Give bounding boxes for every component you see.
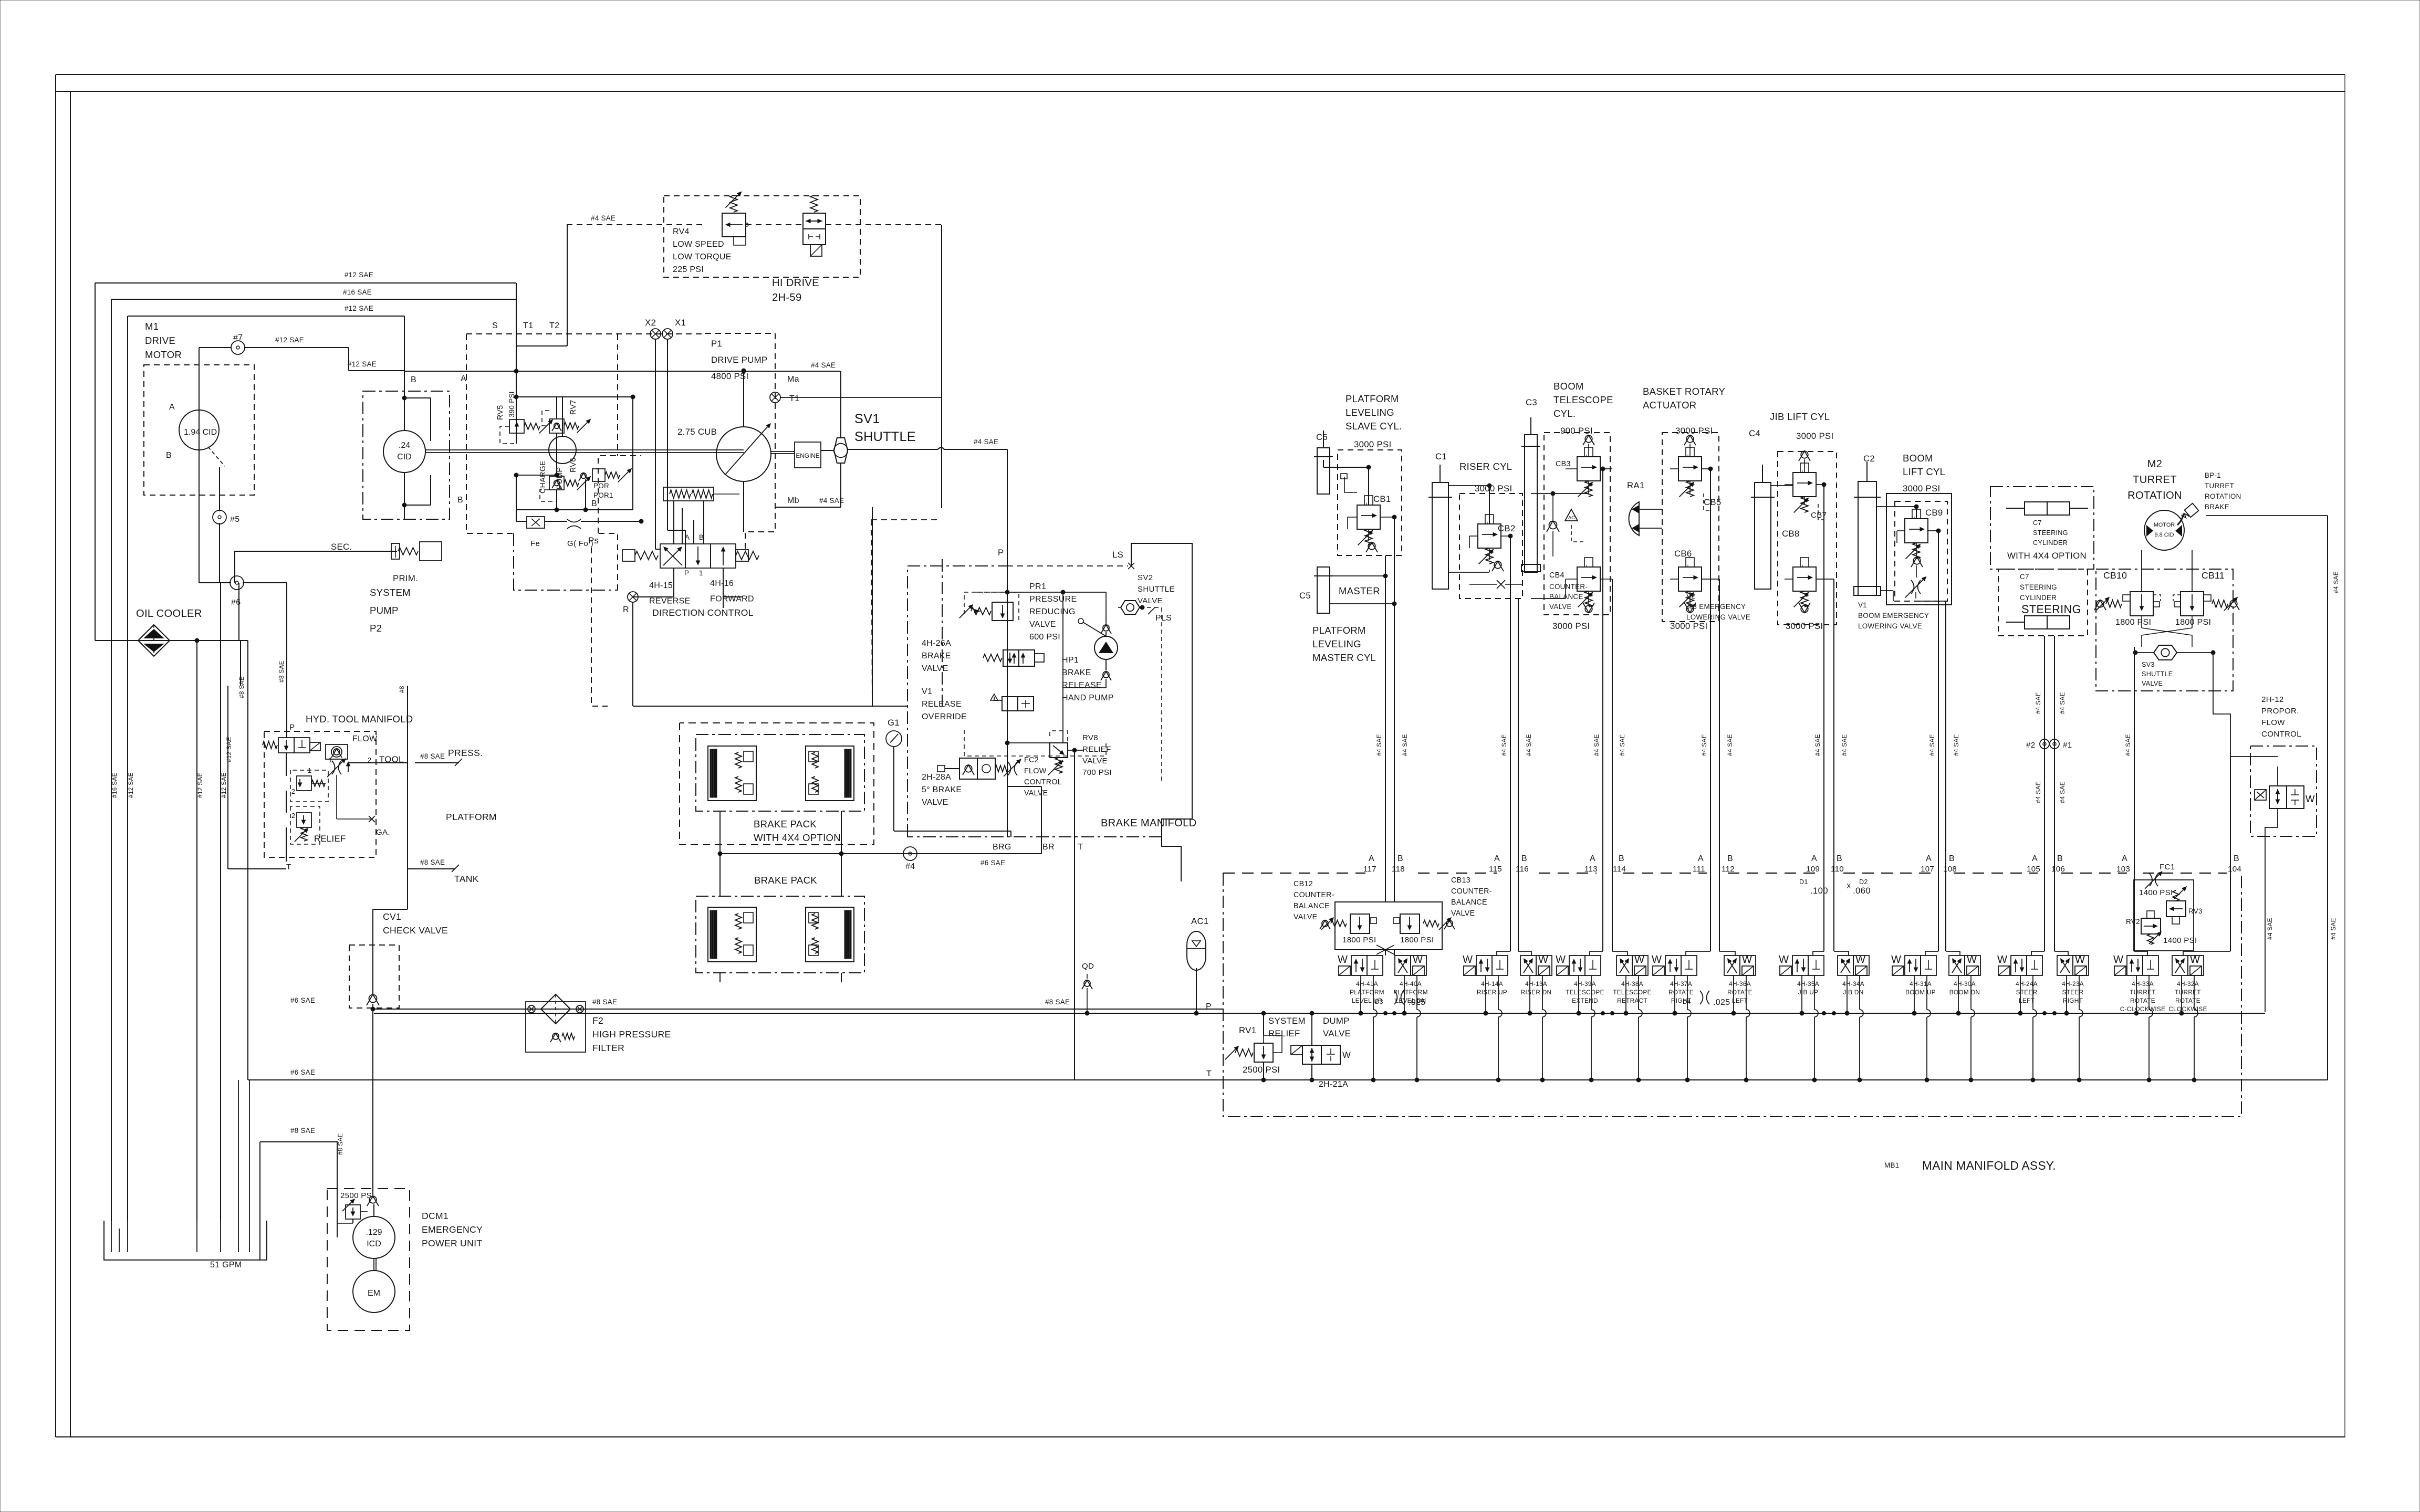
svg-text:ROTATION: ROTATION	[2205, 492, 2241, 500]
svg-text:PLATFORM: PLATFORM	[1312, 625, 1366, 636]
prop flow valve	[2255, 786, 2315, 808]
svg-text:X2: X2	[645, 318, 656, 328]
POR POR1	[579, 468, 632, 499]
svg-text:1800 PSI: 1800 PSI	[2175, 618, 2211, 627]
label B top	[457, 496, 463, 505]
svg-text:RA1: RA1	[1627, 480, 1645, 490]
master cyl label	[1312, 625, 1376, 663]
port A113	[1584, 854, 1598, 874]
svg-text:LEVELING: LEVELING	[1312, 638, 1361, 649]
valve 4H-33A	[2113, 954, 2165, 1013]
svg-text:REVERSE: REVERSE	[649, 596, 691, 605]
ports S T1 T2	[492, 321, 559, 330]
svg-text:TELESCOPE: TELESCOPE	[1566, 989, 1604, 996]
svg-text:VALVE: VALVE	[1451, 909, 1475, 918]
svg-text:ROTATE: ROTATE	[2175, 997, 2200, 1004]
steering cyl bottom	[2006, 616, 2070, 629]
label 3000 PSI cb9	[1903, 484, 1940, 493]
svg-text:B: B	[2234, 854, 2239, 863]
HP1 label	[1062, 656, 1114, 702]
boom lift label	[1863, 453, 1945, 477]
svg-text:#4 SAE: #4 SAE	[819, 497, 844, 505]
svg-text:JIB DN: JIB DN	[1843, 989, 1863, 996]
CB9 outer box	[1886, 493, 1952, 605]
svg-text:225 PSI: 225 PSI	[673, 265, 704, 274]
svg-text:#12 SAE: #12 SAE	[345, 304, 373, 312]
DCM1 check	[367, 1196, 379, 1206]
label A mid	[461, 374, 466, 383]
wire A103 drop	[2134, 616, 2142, 873]
wire bus3 drop	[404, 316, 405, 391]
wire oil cooler line	[95, 583, 248, 764]
svg-text:POR1: POR1	[593, 491, 613, 499]
svg-text:HIGH PRESSURE: HIGH PRESSURE	[592, 1029, 671, 1039]
svg-text:A: A	[1590, 854, 1595, 863]
svg-text:MB1: MB1	[1884, 1161, 1899, 1169]
svg-text:VALVE: VALVE	[1323, 1028, 1351, 1038]
svg-text:FLOW: FLOW	[352, 734, 378, 743]
svg-text:C3: C3	[1526, 397, 1537, 407]
turret motor wires	[2142, 546, 2192, 592]
steering lower box	[1998, 569, 2088, 636]
svg-text:#8 SAE: #8 SAE	[290, 1127, 315, 1135]
svg-text:T1: T1	[789, 394, 799, 403]
svg-text:1: 1	[329, 757, 332, 764]
svg-text:4H-31A: 4H-31A	[1910, 980, 1932, 988]
svg-text:4H-23A: 4H-23A	[2062, 980, 2084, 988]
svg-text:MASTER CYL: MASTER CYL	[1312, 652, 1376, 663]
orifice #7	[231, 333, 245, 354]
svg-text:TELESCOPE: TELESCOPE	[1613, 989, 1652, 996]
svg-text:LOW SPEED: LOW SPEED	[673, 240, 724, 249]
AC triangle	[1565, 509, 1578, 521]
AC1 stem	[1194, 968, 1198, 1015]
svg-text:900 PSI: 900 PSI	[1560, 426, 1593, 436]
valve 4H-40A	[1393, 954, 1428, 1004]
V1 release override	[990, 694, 1034, 711]
PR1 valve	[959, 592, 1019, 621]
svg-text:BRAKE: BRAKE	[1062, 668, 1091, 677]
2H-12 label	[2261, 695, 2301, 739]
turret brake BP1	[2177, 503, 2198, 525]
svg-text:118: 118	[1392, 865, 1405, 874]
wire CB9 ports	[1916, 531, 1946, 873]
CB3 valve	[1556, 447, 1600, 497]
svg-text:1800 PSI: 1800 PSI	[2115, 618, 2151, 627]
2H-28A label	[922, 773, 962, 807]
wire turret right vert	[2192, 516, 2340, 1080]
port Fe	[514, 473, 545, 548]
svg-text:PRIM.: PRIM.	[393, 573, 418, 583]
svg-text:T: T	[1206, 1069, 1212, 1078]
test point R	[623, 592, 638, 614]
svg-text:REDUCING: REDUCING	[1029, 607, 1076, 616]
svg-text:W: W	[1967, 954, 1977, 965]
direction control springs	[622, 550, 759, 561]
svg-text:4H-24A: 4H-24A	[2016, 980, 2038, 988]
wire X1 drop	[667, 339, 668, 530]
tool flow control	[326, 734, 378, 777]
tool solenoid valve	[263, 738, 320, 753]
svg-text:D4: D4	[1683, 998, 1691, 1005]
svg-text:PR1: PR1	[1029, 582, 1046, 591]
svg-text:MASTER: MASTER	[1339, 585, 1380, 596]
svg-text:CLOCKWISE: CLOCKWISE	[2168, 1005, 2207, 1013]
basket dashed box	[1662, 433, 1719, 622]
label 900 PSI	[1560, 426, 1593, 436]
4H-15 4H-16 labels	[649, 579, 754, 605]
svg-text:RISER UP: RISER UP	[1477, 989, 1507, 996]
svg-text:CB1: CB1	[1373, 494, 1391, 504]
svg-text:QD: QD	[1082, 962, 1094, 971]
svg-text:1800 PSI: 1800 PSI	[1400, 936, 1434, 944]
dump wires	[1310, 1011, 1314, 1082]
brake pack 2 dashed box	[696, 896, 864, 973]
labels #4 SAE pair1	[1375, 734, 1409, 756]
svg-text:VALVE: VALVE	[1024, 789, 1048, 797]
svg-text:BALANCE: BALANCE	[1451, 898, 1487, 907]
charge pump	[539, 397, 576, 493]
svg-text:WITH 4X4 OPTION: WITH 4X4 OPTION	[754, 832, 841, 843]
svg-text:RELIEF: RELIEF	[1082, 745, 1111, 754]
svg-text:#4 SAE: #4 SAE	[2332, 571, 2340, 593]
labels #4 SAE pair3	[1593, 734, 1626, 756]
svg-text:T: T	[286, 863, 291, 871]
CB10 CB11 box	[2096, 569, 2233, 691]
svg-text:114: 114	[1613, 865, 1626, 874]
svg-text:#5: #5	[230, 515, 239, 524]
svg-text:BOOM: BOOM	[1553, 381, 1584, 392]
wire stroker links	[674, 501, 704, 544]
svg-text:DUMP: DUMP	[1323, 1016, 1350, 1026]
steering 4x4 box	[1990, 487, 2094, 569]
svg-text:SV3: SV3	[2142, 661, 2155, 668]
CB4 valve	[1549, 558, 1600, 607]
svg-text:TURRET: TURRET	[2133, 474, 2177, 486]
svg-text:PLATFORM: PLATFORM	[446, 812, 497, 822]
svg-text:RV8: RV8	[1082, 733, 1098, 742]
wire motor A line	[199, 336, 404, 371]
wire P vertical brake	[998, 449, 1007, 837]
svg-text:W: W	[1855, 954, 1865, 965]
wire #4 SAE dash right	[872, 507, 942, 706]
HP1 hand pump	[1078, 618, 1118, 680]
CB8 valve	[1782, 529, 1816, 607]
wire charge B line	[516, 499, 633, 512]
svg-text:FILTER: FILTER	[592, 1043, 624, 1053]
direction control labels	[684, 533, 704, 577]
svg-text:W: W	[1891, 954, 1901, 965]
wire sec line	[235, 551, 391, 583]
svg-text:1: 1	[308, 767, 311, 774]
CB9 orifice	[1905, 576, 1927, 598]
oil cooler	[136, 608, 202, 656]
svg-text:RELEASE: RELEASE	[1062, 681, 1102, 690]
port A103	[2116, 854, 2130, 874]
CB11 valve	[2173, 592, 2239, 616]
svg-text:D2: D2	[1859, 878, 1868, 886]
label BRAKE MANIFOLD	[1101, 817, 1197, 829]
svg-text:CYLINDER: CYLINDER	[2033, 539, 2068, 547]
svg-text:LS: LS	[1112, 550, 1123, 560]
svg-text:B: B	[1727, 854, 1733, 863]
tank bracket	[104, 1221, 267, 1260]
svg-text:4H-35A: 4H-35A	[1797, 980, 1819, 988]
valve 4H-32A	[2168, 954, 2207, 1013]
DIRECTION CONTROL label	[652, 607, 754, 618]
svg-text:1400 PSI: 1400 PSI	[2139, 888, 2173, 897]
CB4 check	[1583, 591, 1594, 613]
svg-text:W: W	[1652, 954, 1662, 965]
svg-text:CHARGE: CHARGE	[539, 460, 547, 493]
svg-text:TANK: TANK	[454, 874, 479, 884]
svg-text:C2: C2	[1863, 454, 1875, 464]
svg-text:3000 PSI: 3000 PSI	[1786, 621, 1823, 631]
svg-text:A: A	[1494, 854, 1500, 863]
svg-text:BOOM DN: BOOM DN	[1949, 989, 1980, 996]
labels #4 SAE pair2	[1500, 734, 1532, 756]
wire #6 SAE T line	[248, 1068, 1223, 1080]
svg-text:HAND PUMP: HAND PUMP	[1062, 694, 1114, 702]
svg-text:BOOM UP: BOOM UP	[1905, 989, 1936, 996]
svg-text:ROTATE: ROTATE	[2130, 997, 2155, 1004]
svg-text:#4 SAE: #4 SAE	[2035, 781, 2042, 803]
port A105	[2027, 854, 2040, 874]
wire Mb line	[775, 496, 844, 507]
svg-text:4H-33A: 4H-33A	[2132, 980, 2154, 988]
BP-1 label	[2205, 471, 2241, 511]
svg-text:CONTROL: CONTROL	[1024, 778, 1062, 786]
wire hi drive feed	[567, 225, 942, 508]
svg-text:5° BRAKE: 5° BRAKE	[922, 785, 962, 794]
svg-text:BOOM: BOOM	[1903, 453, 1933, 464]
AC1 accumulator	[1187, 916, 1209, 970]
svg-text:.100: .100	[1810, 886, 1828, 896]
svg-text:111: 111	[1693, 865, 1705, 874]
svg-text:C6: C6	[1316, 432, 1328, 442]
svg-text:#7: #7	[233, 333, 243, 342]
prop flow wires	[2230, 757, 2337, 1012]
svg-text:#12 SAE: #12 SAE	[127, 772, 134, 798]
svg-text:P1: P1	[711, 339, 722, 349]
svg-text:T1: T1	[523, 321, 533, 330]
svg-text:ACTUATOR: ACTUATOR	[1643, 400, 1696, 411]
svg-text:RV4: RV4	[673, 227, 690, 236]
svg-text:#4 SAE: #4 SAE	[591, 214, 616, 222]
svg-text:390 PSI: 390 PSI	[508, 391, 516, 417]
svg-text:B: B	[1837, 854, 1842, 863]
wire left margin vertical 2	[111, 299, 112, 1221]
svg-text:PUMP: PUMP	[370, 605, 399, 616]
svg-text:.129: .129	[366, 1228, 382, 1237]
svg-text:W: W	[1538, 954, 1548, 965]
1800 PSI labels	[2115, 618, 2211, 627]
RV3 valve	[2166, 886, 2203, 924]
tool labels 1 2	[329, 754, 404, 764]
svg-text:4H-15: 4H-15	[649, 581, 673, 590]
svg-text:4H-39A: 4H-39A	[1574, 980, 1596, 988]
svg-text:COUNTER-: COUNTER-	[1549, 583, 1588, 591]
CB13 label	[1451, 876, 1492, 918]
svg-text:#1: #1	[2063, 741, 2072, 750]
wire CB2 to ports	[1510, 536, 1518, 873]
svg-text:F2: F2	[592, 1015, 603, 1026]
svg-text:#4 SAE: #4 SAE	[2330, 918, 2337, 940]
port A109	[1806, 854, 1820, 874]
wire sv3	[2133, 647, 2215, 691]
svg-text:STEERING: STEERING	[2020, 583, 2057, 591]
label SEC	[331, 542, 352, 552]
svg-text:MAIN MANIFOLD ASSY.: MAIN MANIFOLD ASSY.	[1922, 1159, 2056, 1172]
svg-text:LIFT CYL: LIFT CYL	[1903, 466, 1945, 477]
svg-text:P: P	[289, 723, 295, 732]
valve 4H-34A	[1838, 954, 1869, 996]
cylinder C1	[1428, 465, 1452, 589]
svg-text:A: A	[2032, 854, 2038, 863]
labels #4 SAE pair4	[1701, 734, 1734, 756]
svg-text:P: P	[998, 548, 1004, 558]
4H-26A label	[922, 639, 951, 673]
svg-text:C-CLOCKWISE: C-CLOCKWISE	[2120, 1005, 2166, 1013]
wire B104 sv3	[2213, 691, 2230, 873]
QD symbol	[1082, 974, 1092, 1015]
CB2 wires	[1448, 484, 1513, 572]
orifice #6	[230, 576, 244, 607]
svg-text:VALVE: VALVE	[1138, 596, 1163, 605]
svg-text:CB9: CB9	[1925, 508, 1943, 518]
svg-text:B: B	[457, 496, 463, 505]
brake pack 4x4 label	[754, 818, 841, 843]
svg-text:JIB UP: JIB UP	[1798, 989, 1819, 996]
CV1 dashed box	[349, 945, 399, 1008]
orifice #4	[903, 847, 1005, 871]
svg-text:#16 SAE: #16 SAE	[343, 288, 372, 296]
svg-text:A: A	[1811, 854, 1817, 863]
svg-text:RIGHT: RIGHT	[2063, 997, 2083, 1004]
tool reducing valve	[290, 767, 328, 802]
svg-text:117: 117	[1363, 865, 1376, 874]
svg-text:ENGINE: ENGINE	[796, 452, 819, 459]
svg-text:CB5: CB5	[1704, 497, 1722, 507]
wire left margin vertical 1	[95, 283, 96, 640]
CB1 wires	[1323, 460, 1396, 541]
svg-text:4H-16: 4H-16	[710, 579, 734, 588]
svg-text:HI DRIVE: HI DRIVE	[772, 277, 819, 289]
brake unit 1a	[708, 746, 756, 801]
svg-text:PLATFORM: PLATFORM	[1393, 989, 1428, 996]
jib dashed box	[1778, 451, 1837, 625]
svg-text:R: R	[623, 605, 629, 614]
svg-text:#4 SAE: #4 SAE	[1525, 734, 1532, 756]
DCM1 relief	[342, 1199, 360, 1219]
svg-text:COUNTER-: COUNTER-	[1451, 887, 1492, 896]
svg-text:SLAVE CYL.: SLAVE CYL.	[1345, 421, 1402, 432]
port A115	[1489, 854, 1502, 874]
CB6 valve	[1674, 549, 1702, 607]
svg-text:#4 SAE: #4 SAE	[1619, 734, 1626, 756]
svg-text:TURRET: TURRET	[2205, 482, 2234, 490]
svg-text:B: B	[2057, 854, 2063, 863]
RV1 wires	[1261, 1011, 1266, 1082]
svg-text:DRIVE PUMP: DRIVE PUMP	[711, 355, 767, 365]
svg-text:#4 SAE: #4 SAE	[974, 438, 998, 446]
svg-text:#16 SAE: #16 SAE	[111, 772, 118, 798]
CB13 valve	[1393, 914, 1455, 933]
svg-text:CYL.: CYL.	[1553, 408, 1576, 419]
svg-text:#8 SAE: #8 SAE	[337, 1133, 344, 1155]
svg-text:AC1: AC1	[1191, 916, 1209, 926]
hyd tool manifold label	[306, 713, 413, 724]
svg-text:W: W	[1779, 954, 1789, 965]
shaft line	[425, 450, 744, 453]
#4 SAE top label	[591, 214, 616, 222]
valve 4H-13A	[1520, 954, 1552, 996]
svg-text:EM: EM	[368, 1289, 380, 1298]
svg-text:4H-38A: 4H-38A	[1621, 980, 1643, 988]
svg-text:RETRACT: RETRACT	[1617, 997, 1647, 1004]
RV6 relief	[540, 458, 591, 501]
wire brake pack drops	[718, 811, 1041, 982]
4H-26A brake valve	[983, 650, 1044, 666]
svg-text:VALVE: VALVE	[1549, 603, 1572, 611]
svg-text:BRAKE MANIFOLD: BRAKE MANIFOLD	[1101, 817, 1197, 829]
svg-text:#8 SAE: #8 SAE	[238, 676, 245, 698]
port B112	[1722, 854, 1735, 874]
svg-text:W: W	[1742, 954, 1752, 965]
svg-text:#4: #4	[905, 862, 915, 871]
svg-text:DCM1: DCM1	[422, 1211, 448, 1221]
FC2 flow control	[937, 758, 1021, 779]
brake unit 2b	[806, 907, 854, 962]
svg-text:51 GPM: 51 GPM	[210, 1261, 242, 1269]
svg-text:A: A	[1698, 854, 1704, 863]
QD label	[1082, 962, 1094, 971]
CB2 X mark	[1469, 580, 1522, 589]
PR P label	[0, 0, 1, 1]
svg-text:9.8 CID: 9.8 CID	[2155, 532, 2174, 538]
wire left margin vertical 3	[127, 316, 128, 1221]
V1 boom label	[1858, 601, 1929, 630]
CB12 label	[1294, 880, 1334, 921]
svg-text:RELIEF: RELIEF	[314, 834, 346, 844]
brake manifold boundary	[908, 543, 1192, 881]
svg-text:#4 SAE: #4 SAE	[2035, 692, 2042, 714]
svg-text:W: W	[1413, 954, 1423, 965]
svg-text:T: T	[1078, 843, 1083, 852]
svg-text:STEER: STEER	[2016, 989, 2038, 996]
svg-text:ICD: ICD	[367, 1240, 381, 1248]
svg-text:.24: .24	[399, 441, 410, 450]
svg-text:112: 112	[1722, 865, 1735, 874]
CB7 valve	[1793, 463, 1827, 520]
pump group dashed box	[466, 334, 705, 590]
svg-text:4H-26A: 4H-26A	[922, 639, 951, 648]
svg-text:V2: V2	[1686, 592, 1695, 600]
svg-text:#8 SAE: #8 SAE	[592, 998, 617, 1006]
label 3000 PSI cb7	[1796, 431, 1833, 441]
2H-12 dashdot box	[2250, 746, 2317, 836]
label 1400 psi top	[2139, 888, 2173, 897]
svg-text:600 PSI: 600 PSI	[1029, 633, 1060, 642]
svg-text:BRAKE PACK: BRAKE PACK	[754, 875, 817, 886]
svg-text:JIB LIFT CYL: JIB LIFT CYL	[1770, 411, 1830, 422]
brake unit 2a	[708, 907, 756, 962]
stroker springs	[663, 487, 739, 501]
svg-text:W: W	[1634, 954, 1644, 965]
svg-text:#4 SAE: #4 SAE	[1375, 734, 1383, 756]
svg-text:SHUTTLE: SHUTTLE	[854, 429, 916, 444]
svg-text:V1: V1	[1858, 601, 1867, 609]
